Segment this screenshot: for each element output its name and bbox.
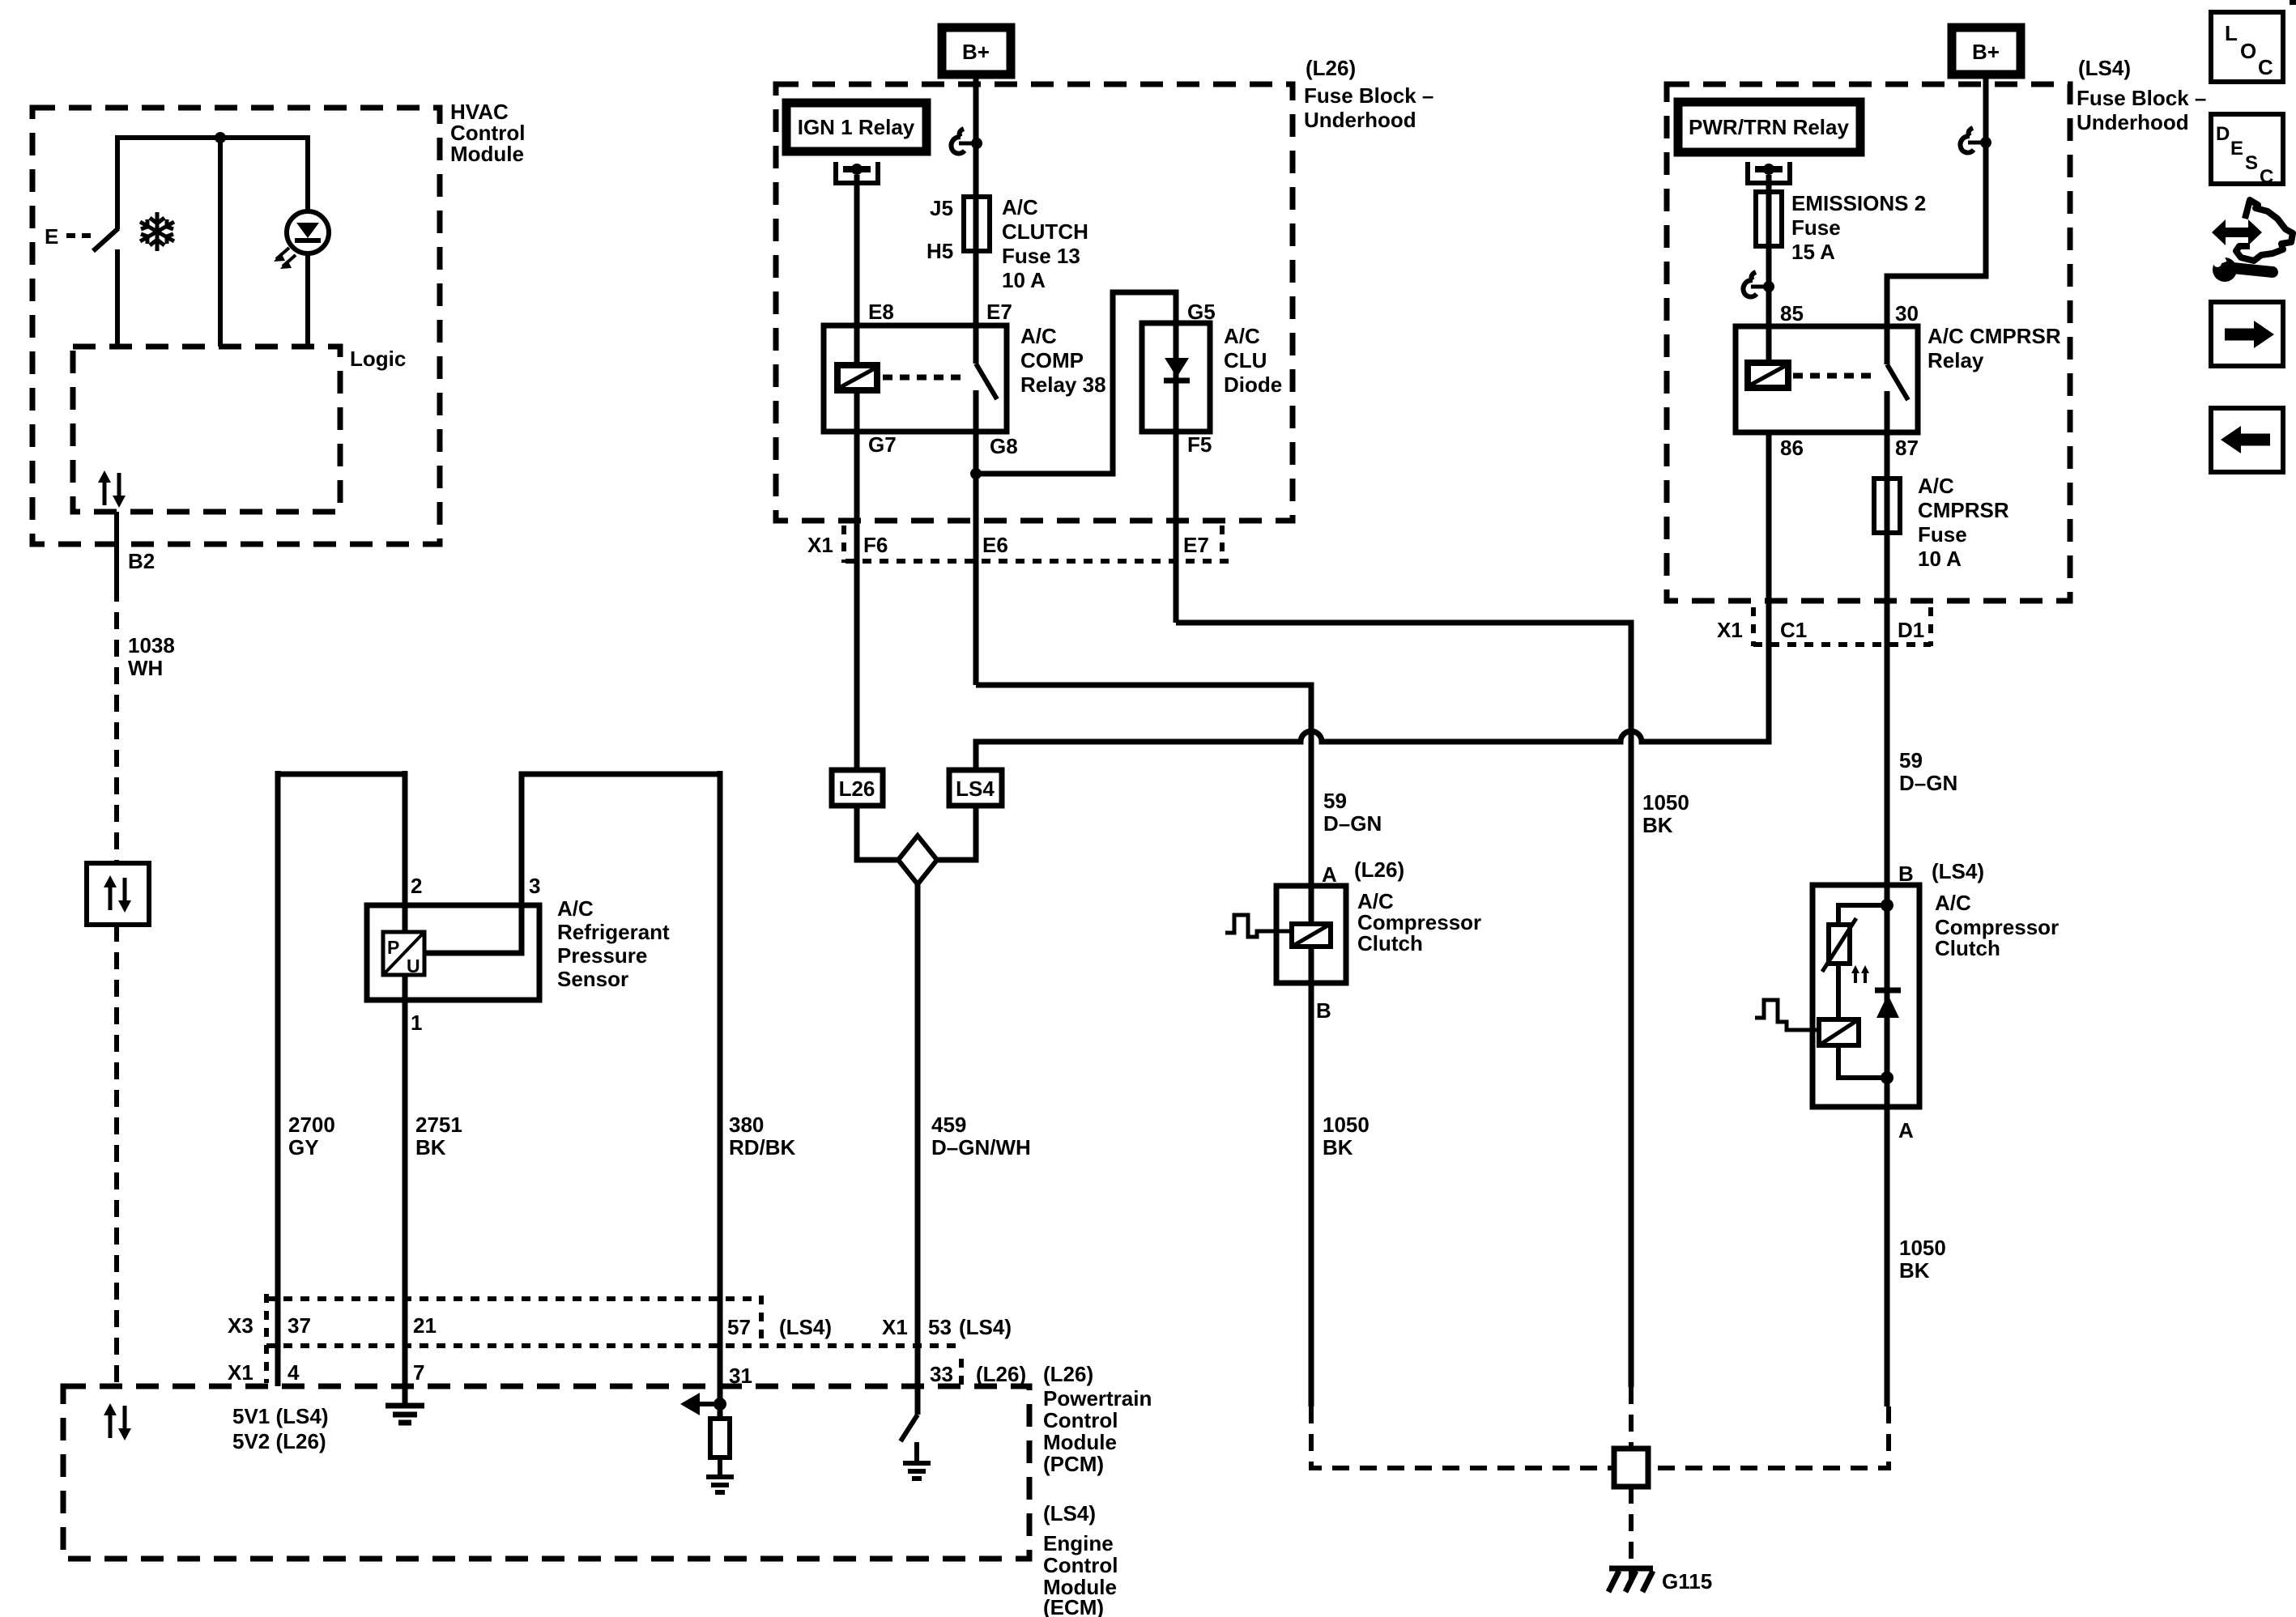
clutch LS4 coil xyxy=(1819,1019,1859,1045)
HVAC Control Module label xyxy=(450,100,525,166)
svg-text:5V2 (L26): 5V2 (L26) xyxy=(232,1429,326,1453)
svg-text:BK: BK xyxy=(415,1135,446,1160)
svg-text:D1: D1 xyxy=(1898,618,1924,642)
clutch L26 label xyxy=(1354,857,1481,955)
EMISSIONS 2 fuse label xyxy=(1791,191,1926,264)
PCM module box xyxy=(63,1386,1029,1559)
svg-text:U: U xyxy=(407,955,420,977)
svg-text:A/C: A/C xyxy=(1935,891,1971,915)
wire G8 down through E6 xyxy=(973,390,979,685)
svg-text:30: 30 xyxy=(1895,301,1919,326)
wire thermistor to coil xyxy=(1836,964,1841,1019)
svg-text:L: L xyxy=(2225,21,2238,45)
relay LS4 coil-switch link xyxy=(1793,373,1876,379)
wire resistor to ground xyxy=(718,1457,722,1475)
svg-text:B2: B2 xyxy=(128,549,155,573)
svg-text:(L26): (L26) xyxy=(1354,857,1404,882)
wire dashes from E to switch xyxy=(66,233,96,238)
svg-text:H5: H5 xyxy=(926,239,953,263)
splice bus wire xyxy=(976,432,1769,770)
svg-text:O: O xyxy=(2240,39,2256,63)
node junction at hook xyxy=(971,138,982,149)
L26 connector row bottom dotted xyxy=(846,559,1231,564)
svg-text:(LS4): (LS4) xyxy=(779,1315,832,1339)
svg-text:1050: 1050 xyxy=(1642,790,1689,815)
Fuse Block Underhood LS4 box xyxy=(1667,84,2070,601)
thermistor arrows xyxy=(1855,970,1865,983)
svg-text:1: 1 xyxy=(411,1011,422,1035)
svg-text:P: P xyxy=(387,937,399,958)
svg-text:Fuse: Fuse xyxy=(1791,215,1841,240)
PWR/TRN Relay label box xyxy=(1678,102,1860,152)
pulse symbol L26 clutch xyxy=(1225,915,1292,937)
inline terminal hook at B+ L26 xyxy=(951,129,977,154)
node junction at LS4 hook xyxy=(1980,137,1991,148)
node junction at 85 hook xyxy=(1763,281,1774,292)
svg-text:Clutch: Clutch xyxy=(1357,931,1423,955)
svg-text:COMP: COMP xyxy=(1020,348,1084,372)
LOC icon box xyxy=(2211,12,2283,82)
wire label 59 D-GN left xyxy=(1323,789,1382,836)
svg-text:15 A: 15 A xyxy=(1791,240,1835,264)
ground stem pin 33 xyxy=(914,1442,919,1462)
ground at pin 7 xyxy=(386,1406,424,1423)
IGN 1 Relay label box xyxy=(786,103,926,151)
svg-text:F6: F6 xyxy=(863,533,888,557)
svg-text:E7: E7 xyxy=(986,300,1012,324)
svg-text:Control: Control xyxy=(1043,1553,1118,1577)
relay LS4 coil xyxy=(1748,363,1788,388)
DESC icon box xyxy=(2211,114,2283,184)
svg-text:PWR/TRN Relay: PWR/TRN Relay xyxy=(1689,115,1849,139)
forward arrow icon box xyxy=(2211,302,2283,366)
svg-text:X3: X3 xyxy=(228,1313,253,1338)
svg-text:Logic: Logic xyxy=(350,347,406,371)
wire 87 through fuse to clutch xyxy=(1885,391,1890,885)
LED light arrows xyxy=(276,248,296,266)
wire label 1050 BK right xyxy=(1899,1236,1946,1283)
wire LS4 clutch main vertical xyxy=(1885,885,1890,1078)
svg-text:Powertrain: Powertrain xyxy=(1043,1386,1152,1411)
wire 2700 GY xyxy=(275,771,281,1386)
LS4 connector row bottom dotted xyxy=(1753,642,1931,647)
svg-text:(LS4): (LS4) xyxy=(959,1315,1012,1339)
svg-text:G7: G7 xyxy=(868,432,897,457)
thermistor rect xyxy=(1829,925,1850,964)
wire LS4 to splice diamond xyxy=(937,806,976,860)
svg-text:Refrigerant: Refrigerant xyxy=(557,920,670,944)
svg-text:B: B xyxy=(1898,862,1914,886)
wire thermistor branch xyxy=(1838,905,1887,925)
wire LED upper xyxy=(305,135,310,212)
wire 380 RD/BK xyxy=(718,771,723,1419)
svg-text:X1: X1 xyxy=(807,533,833,557)
svg-text:2700: 2700 xyxy=(288,1113,335,1137)
svg-text:B+: B+ xyxy=(1972,40,2000,64)
relay coil terminal bracket xyxy=(836,162,878,183)
A/C CMPRSR Relay label xyxy=(1928,324,2061,372)
svg-text:A/C: A/C xyxy=(1002,195,1038,219)
svg-text:3: 3 xyxy=(529,874,540,898)
L26 option box xyxy=(832,770,883,806)
svg-text:E8: E8 xyxy=(868,300,894,324)
svg-text:4: 4 xyxy=(288,1360,300,1385)
svg-text:37: 37 xyxy=(288,1313,311,1338)
thermistor strike xyxy=(1822,918,1856,972)
svg-text:(L26): (L26) xyxy=(1306,56,1356,80)
X3 left separator xyxy=(264,1294,269,1383)
svg-text:Engine: Engine xyxy=(1043,1531,1114,1555)
relay 38 coil-switch link xyxy=(883,375,965,381)
svg-text:CLU: CLU xyxy=(1224,348,1267,372)
sensor label xyxy=(557,896,670,991)
relay 38 switch lever xyxy=(976,364,997,399)
svg-text:Fuse: Fuse xyxy=(1918,522,1967,547)
svg-text:G115: G115 xyxy=(1662,1569,1712,1594)
svg-text:33: 33 xyxy=(930,1362,953,1386)
A/C Refrigerant Pressure Sensor box xyxy=(367,905,539,1000)
svg-text:Underhood: Underhood xyxy=(1304,108,1416,132)
svg-text:A/C: A/C xyxy=(1020,324,1057,348)
svg-text:L26: L26 xyxy=(839,777,875,801)
clutch LS4 diode bar xyxy=(1875,988,1901,994)
node G8 junction xyxy=(970,468,982,479)
dashed wire to G115 xyxy=(1629,1487,1634,1582)
wire label 1050 BK middle xyxy=(1642,790,1689,837)
svg-text:X1: X1 xyxy=(882,1315,908,1339)
wire pin3 internal xyxy=(424,774,720,953)
PCM connector row X3 bottom dotted xyxy=(266,1343,959,1348)
E7 separator xyxy=(1220,526,1225,563)
A/C CLU Diode box xyxy=(1142,323,1210,432)
wire pin 2 xyxy=(403,771,408,932)
svg-text:F5: F5 xyxy=(1187,432,1212,457)
wire top horizontal inside HVAC xyxy=(117,135,308,140)
svg-text:Sensor: Sensor xyxy=(557,967,628,991)
svg-text:59: 59 xyxy=(1899,748,1923,772)
svg-text:1050: 1050 xyxy=(1899,1236,1946,1260)
wire label 2751 BK xyxy=(415,1113,462,1160)
wire pin 1 / 2751 BK xyxy=(403,975,408,1403)
svg-text:B+: B+ xyxy=(962,40,990,64)
svg-text:E7: E7 xyxy=(1183,533,1209,557)
wire diode branch xyxy=(976,292,1176,474)
node junction 380 xyxy=(714,1398,726,1411)
chassis ground G115 xyxy=(1608,1568,1653,1592)
wire 1038 dashed lower xyxy=(114,925,119,1386)
wire label 59 D-GN right xyxy=(1899,748,1957,795)
X1 separator xyxy=(841,526,846,563)
svg-text:A/C: A/C xyxy=(1224,324,1260,348)
svg-text:(LS4): (LS4) xyxy=(1932,859,1984,883)
relay coil terminal bracket LS4 xyxy=(1748,162,1790,183)
snowflake icon xyxy=(140,212,174,251)
LED diode triangle xyxy=(296,223,319,238)
svg-text:10 A: 10 A xyxy=(1918,547,1962,571)
wire LED lower xyxy=(305,253,310,347)
svg-text:Module: Module xyxy=(1043,1430,1117,1454)
ECM name label xyxy=(1043,1531,1118,1617)
svg-text:CMPRSR: CMPRSR xyxy=(1918,498,2009,522)
wire 459 D-GN/WH xyxy=(915,884,921,1415)
HVAC Control Module box xyxy=(32,108,440,544)
ground at pin 33 xyxy=(903,1463,931,1479)
wire through diode xyxy=(1174,323,1179,623)
wire label 459 D-GN/WH xyxy=(931,1113,1031,1160)
svg-text:Clutch: Clutch xyxy=(1935,936,2000,960)
fuse EMISSIONS 2 xyxy=(1756,192,1782,246)
LED indicator circle xyxy=(287,211,329,253)
svg-text:A/C CMPRSR: A/C CMPRSR xyxy=(1928,324,2061,348)
LS4 fuse block caption xyxy=(2077,56,2206,134)
svg-text:21: 21 xyxy=(413,1313,437,1338)
wire middle vertical to logic xyxy=(218,138,223,347)
dashed ground wire middle xyxy=(1629,1387,1634,1447)
svg-text:E: E xyxy=(2230,138,2243,160)
splice diamond xyxy=(898,836,937,884)
33 separator xyxy=(959,1359,964,1386)
switch to ground pin 33 xyxy=(901,1415,918,1441)
svg-text:B: B xyxy=(1316,998,1331,1023)
svg-text:Fuse Block –: Fuse Block – xyxy=(2077,86,2206,110)
svg-text:59: 59 xyxy=(1323,789,1347,813)
resistor internal PCM xyxy=(710,1419,730,1457)
A/C Compressor Clutch LS4 box xyxy=(1813,885,1919,1107)
svg-text:G8: G8 xyxy=(990,434,1018,458)
svg-text:Relay: Relay xyxy=(1928,348,1984,372)
svg-text:57: 57 xyxy=(727,1315,751,1339)
svg-text:Diode: Diode xyxy=(1224,372,1282,397)
wire clutch A down xyxy=(1885,1078,1890,1406)
svg-text:2751: 2751 xyxy=(415,1113,462,1137)
svg-text:D–GN: D–GN xyxy=(1899,771,1957,795)
clutch LS4 label xyxy=(1932,859,2059,960)
svg-text:A/C: A/C xyxy=(1918,474,1954,498)
A/C CMPRSR fuse label xyxy=(1918,474,2009,571)
svg-text:2: 2 xyxy=(411,874,422,898)
Logic box xyxy=(73,347,340,512)
fuse 13 label xyxy=(1002,195,1088,292)
A/C CMPRSR Relay box xyxy=(1736,326,1918,432)
5V reference labels xyxy=(232,1404,329,1453)
svg-text:Fuse Block –: Fuse Block – xyxy=(1304,83,1433,108)
svg-text:5V1 (LS4): 5V1 (LS4) xyxy=(232,1404,329,1428)
svg-text:J5: J5 xyxy=(930,196,953,220)
svg-text:86: 86 xyxy=(1780,436,1804,460)
scan artifact top right xyxy=(2290,0,2296,5)
signal arrow at pin 31 xyxy=(696,1402,720,1406)
logic in/out arrows xyxy=(98,470,126,508)
svg-text:IGN 1 Relay: IGN 1 Relay xyxy=(798,115,915,139)
ground junction box G115 xyxy=(1614,1449,1648,1487)
wire label 1050 BK left xyxy=(1323,1113,1370,1160)
wire switch lower xyxy=(115,249,120,347)
svg-text:BK: BK xyxy=(1642,813,1673,837)
svg-text:BK: BK xyxy=(1899,1258,1930,1283)
clutch LS4 diode triangle xyxy=(1876,994,1899,1018)
svg-text:D: D xyxy=(2216,123,2230,145)
wire B+ LS4 to relay 30 xyxy=(1887,74,1986,364)
svg-text:X1: X1 xyxy=(1717,618,1743,642)
wire G7 to L26 connector xyxy=(854,392,860,770)
wire clutch B to ground bus xyxy=(1309,983,1314,1406)
inline connector arrow box xyxy=(87,863,149,925)
svg-text:7: 7 xyxy=(413,1360,424,1385)
back arrow icon box xyxy=(2211,408,2283,472)
L26 fuse block caption xyxy=(1304,56,1433,132)
node junction clutch top xyxy=(1881,899,1893,912)
svg-text:EMISSIONS 2: EMISSIONS 2 xyxy=(1791,191,1926,215)
svg-text:C: C xyxy=(2260,166,2273,188)
PCM in/out arrows xyxy=(104,1403,131,1440)
wire B2 stub xyxy=(114,512,119,585)
svg-text:G5: G5 xyxy=(1187,300,1216,324)
B+ LS4 box xyxy=(1952,28,2021,74)
svg-text:459: 459 xyxy=(931,1113,966,1137)
service tools icon xyxy=(2212,200,2293,282)
wire sensor top left horizontal xyxy=(278,772,405,777)
svg-text:D–GN/WH: D–GN/WH xyxy=(931,1135,1031,1160)
X1 separator LS4 xyxy=(1751,607,1756,646)
svg-text:GY: GY xyxy=(288,1135,319,1160)
svg-text:A: A xyxy=(1322,862,1337,887)
inline terminal hook at B+ LS4 xyxy=(1960,128,1986,153)
node junction clutch bottom xyxy=(1881,1071,1893,1084)
pulse symbol LS4 clutch xyxy=(1755,1000,1819,1030)
svg-text:S: S xyxy=(2245,152,2258,174)
svg-text:(LS4): (LS4) xyxy=(2078,56,2131,80)
svg-text:X1: X1 xyxy=(228,1360,253,1385)
svg-text:380: 380 xyxy=(729,1113,764,1137)
ground internal PCM xyxy=(706,1477,734,1492)
wire label 2700 GY xyxy=(288,1113,335,1160)
B+ L26 box xyxy=(942,28,1011,74)
dashed ground wire right xyxy=(1651,1406,1889,1468)
svg-text:RD/BK: RD/BK xyxy=(729,1135,796,1160)
D1 separator xyxy=(1928,607,1933,646)
svg-text:D–GN: D–GN xyxy=(1323,811,1382,836)
svg-text:(PCM): (PCM) xyxy=(1043,1452,1104,1476)
svg-text:Control: Control xyxy=(1043,1408,1118,1432)
svg-text:1038: 1038 xyxy=(128,633,175,657)
svg-text:Underhood: Underhood xyxy=(2077,110,2189,134)
wire B+ to relay switch xyxy=(973,74,979,364)
wire label 380 RD/BK xyxy=(729,1113,796,1160)
relay 38 coil xyxy=(837,365,877,390)
svg-text:(LS4): (LS4) xyxy=(1043,1501,1096,1526)
svg-text:(L26): (L26) xyxy=(976,1362,1026,1386)
dashed ground wire left xyxy=(1311,1406,1612,1468)
clutch L26 coil xyxy=(1309,886,1314,924)
svg-text:WH: WH xyxy=(128,656,163,680)
svg-text:Pressure: Pressure xyxy=(557,943,647,968)
A/C Compressor Clutch L26 box xyxy=(1276,886,1346,983)
wire 1038 dashed upper xyxy=(114,585,119,863)
diode label xyxy=(1224,324,1282,397)
svg-text:1050: 1050 xyxy=(1323,1113,1370,1137)
svg-text:85: 85 xyxy=(1780,301,1804,326)
svg-text:LS4: LS4 xyxy=(956,777,995,801)
wire L26 to splice diamond xyxy=(857,806,898,860)
relay 38 label xyxy=(1020,324,1106,397)
svg-text:(ECM): (ECM) xyxy=(1043,1595,1104,1617)
fuse A/C CMPRSR xyxy=(1874,479,1900,533)
Fuse Block Underhood L26 box xyxy=(776,84,1293,521)
inline terminal hook at 85 xyxy=(1743,272,1769,297)
svg-text:53: 53 xyxy=(928,1315,952,1339)
LED diode bar xyxy=(295,238,321,243)
svg-text:CLUTCH: CLUTCH xyxy=(1002,219,1088,244)
wire E6 to 59 D-GN xyxy=(976,685,1311,886)
relay LS4 switch lever xyxy=(1887,364,1908,400)
switch lever (A/C request switch) xyxy=(93,228,118,251)
LS4 option box xyxy=(949,770,1002,806)
svg-text:Relay 38: Relay 38 xyxy=(1020,372,1106,397)
svg-text:A: A xyxy=(1898,1118,1914,1143)
svg-text:C1: C1 xyxy=(1780,618,1807,642)
wire coil to bottom junction xyxy=(1838,1045,1887,1078)
A/C COMP Relay 38 box xyxy=(824,326,1007,432)
wire E8 coil feed xyxy=(854,175,860,365)
P/U transducer symbol xyxy=(383,932,424,975)
svg-text:87: 87 xyxy=(1895,436,1919,460)
PCM name label xyxy=(1043,1386,1152,1476)
fuse A/C CLUTCH Fuse 13 xyxy=(964,197,990,251)
wire switch upper xyxy=(115,135,120,229)
svg-text:A/C: A/C xyxy=(557,896,594,921)
svg-text:(L26): (L26) xyxy=(1043,1362,1093,1386)
wire coil feed 85 xyxy=(1766,175,1772,363)
svg-text:10 A: 10 A xyxy=(1002,268,1046,292)
node junction top xyxy=(215,132,226,143)
svg-text:BK: BK xyxy=(1323,1135,1353,1160)
diode symbol xyxy=(1165,358,1189,377)
wire E7 to 1050 BK xyxy=(1176,623,1631,1387)
svg-text:Module: Module xyxy=(450,142,524,166)
svg-text:C: C xyxy=(2258,55,2273,79)
PCM connector row X3 top dotted xyxy=(266,1296,761,1301)
svg-text:Fuse 13: Fuse 13 xyxy=(1002,244,1080,268)
wire label 1038 WH xyxy=(128,633,175,680)
57 separator xyxy=(759,1296,764,1346)
svg-text:E: E xyxy=(45,224,58,249)
svg-text:E6: E6 xyxy=(982,533,1008,557)
